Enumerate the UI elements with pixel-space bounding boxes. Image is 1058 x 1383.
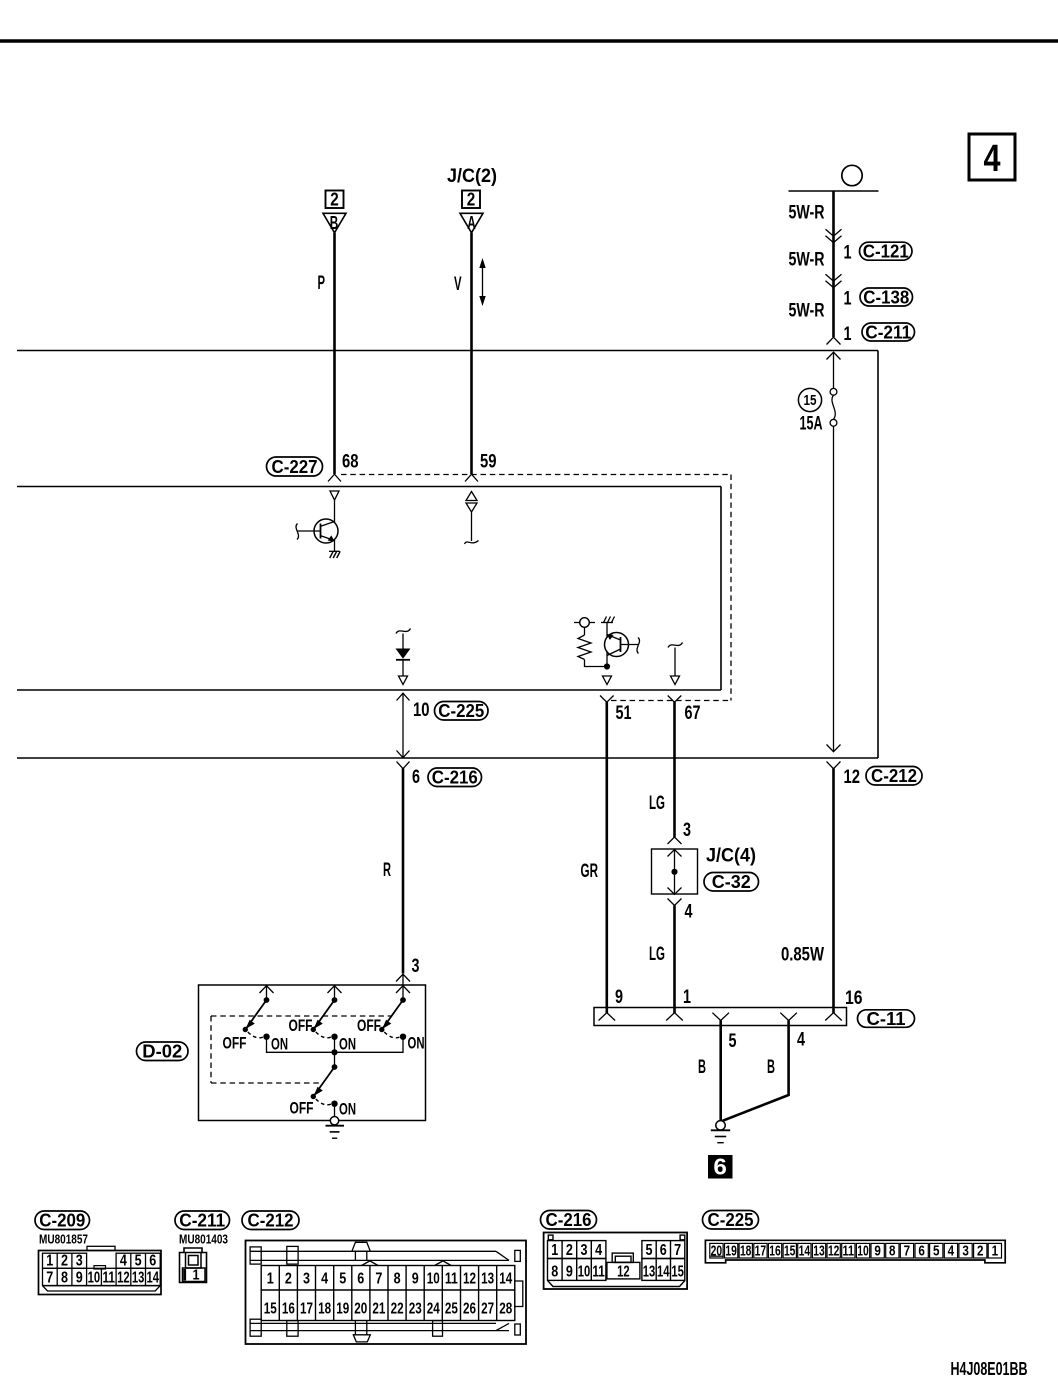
svg-text:6: 6 [713,1154,727,1180]
svg-text:4: 4 [595,1242,602,1259]
svg-text:4: 4 [685,901,693,923]
svg-text:OFF: OFF [357,1016,381,1035]
svg-text:2: 2 [467,190,476,210]
svg-text:5: 5 [135,1252,142,1269]
svg-text:12: 12 [117,1270,130,1287]
svg-text:15A: 15A [800,413,823,435]
svg-text:12: 12 [844,766,861,788]
svg-text:R: R [383,859,391,881]
svg-text:17: 17 [755,1243,767,1259]
svg-text:14: 14 [499,1271,512,1288]
svg-text:67: 67 [685,702,701,724]
svg-text:11: 11 [102,1270,115,1287]
svg-text:7: 7 [674,1242,681,1259]
svg-text:C-227: C-227 [272,457,318,477]
svg-text:11: 11 [592,1264,605,1281]
svg-text:68: 68 [342,451,359,473]
svg-text:ON: ON [339,1100,356,1119]
svg-text:3: 3 [683,819,691,841]
svg-text:11: 11 [843,1243,855,1259]
svg-text:1: 1 [267,1271,274,1288]
svg-text:LG: LG [649,792,665,814]
svg-text:25: 25 [445,1301,458,1318]
svg-text:P: P [318,272,326,294]
svg-text:26: 26 [463,1301,476,1318]
svg-text:16: 16 [769,1243,781,1259]
svg-text:5W-R: 5W-R [789,300,825,322]
svg-text:3: 3 [412,955,420,977]
svg-text:C-211: C-211 [179,1211,225,1231]
svg-text:7: 7 [46,1270,53,1287]
svg-text:1: 1 [844,242,852,264]
svg-text:C-32: C-32 [712,872,751,892]
svg-text:11: 11 [445,1271,458,1288]
svg-text:6: 6 [357,1271,364,1288]
svg-text:V: V [454,273,462,295]
svg-text:18: 18 [740,1243,752,1259]
svg-text:28: 28 [499,1301,512,1318]
svg-text:C-209: C-209 [39,1211,85,1231]
svg-text:10: 10 [857,1243,869,1259]
svg-text:2: 2 [285,1271,292,1288]
svg-text:12: 12 [463,1271,476,1288]
svg-text:15: 15 [784,1243,796,1259]
svg-text:16: 16 [282,1301,295,1318]
svg-text:12: 12 [617,1264,630,1281]
svg-text:15: 15 [671,1264,684,1281]
svg-text:LG: LG [649,943,665,965]
svg-text:B: B [767,1056,775,1078]
svg-text:1: 1 [46,1252,53,1269]
svg-text:C-212: C-212 [871,766,917,786]
svg-text:10: 10 [88,1270,101,1287]
svg-text:3: 3 [303,1271,310,1288]
svg-text:C-216: C-216 [546,1210,592,1230]
svg-text:13: 13 [132,1270,145,1287]
svg-text:C-11: C-11 [867,1009,906,1029]
svg-text:3: 3 [962,1243,969,1259]
svg-text:24: 24 [427,1301,440,1318]
svg-text:4: 4 [120,1252,127,1269]
svg-text:J/C(2): J/C(2) [447,165,497,187]
svg-text:12: 12 [828,1243,840,1259]
svg-text:27: 27 [481,1301,494,1318]
svg-text:5: 5 [933,1243,940,1259]
svg-text:4: 4 [321,1271,328,1288]
svg-text:8: 8 [394,1271,401,1288]
svg-text:ON: ON [408,1034,425,1053]
svg-text:21: 21 [372,1301,385,1318]
svg-text:C-216: C-216 [432,768,478,788]
svg-text:9: 9 [412,1271,419,1288]
svg-text:6: 6 [918,1243,925,1259]
svg-text:5: 5 [339,1271,346,1288]
svg-text:5W-R: 5W-R [789,202,825,224]
svg-text:15: 15 [804,393,817,409]
svg-text:23: 23 [409,1301,422,1318]
svg-text:9: 9 [566,1264,573,1281]
svg-text:9: 9 [615,986,623,1008]
svg-text:8: 8 [61,1270,68,1287]
svg-text:9: 9 [76,1270,83,1287]
svg-text:4: 4 [984,138,1001,180]
svg-text:2: 2 [977,1243,984,1259]
svg-text:15: 15 [264,1301,277,1318]
svg-text:13: 13 [813,1243,825,1259]
svg-text:OFF: OFF [223,1034,247,1053]
svg-text:C-211: C-211 [865,323,911,343]
svg-text:5W-R: 5W-R [789,249,825,271]
svg-text:1: 1 [683,986,691,1008]
svg-text:10: 10 [413,699,430,721]
svg-text:1: 1 [844,288,852,310]
svg-text:6: 6 [149,1252,156,1269]
svg-text:B: B [698,1056,706,1078]
svg-text:2: 2 [61,1252,68,1269]
svg-text:1: 1 [193,1268,200,1284]
svg-text:D-02: D-02 [142,1042,182,1062]
svg-text:MU801857: MU801857 [39,1232,88,1247]
svg-text:4: 4 [797,1029,805,1051]
svg-text:8: 8 [889,1243,896,1259]
svg-text:1: 1 [844,323,852,345]
svg-text:C-121: C-121 [863,242,909,262]
svg-text:H4J08E01BB: H4J08E01BB [951,1359,1028,1379]
svg-text:51: 51 [616,702,632,724]
svg-text:C-212: C-212 [248,1211,294,1231]
svg-text:14: 14 [147,1270,160,1287]
svg-text:18: 18 [318,1301,331,1318]
svg-text:J/C(4): J/C(4) [706,845,756,867]
svg-text:14: 14 [799,1243,811,1259]
svg-text:MU801403: MU801403 [179,1232,228,1247]
svg-text:1: 1 [992,1243,999,1259]
svg-text:20: 20 [711,1243,723,1259]
svg-text:19: 19 [336,1301,349,1318]
svg-text:5: 5 [646,1242,653,1259]
svg-text:C-225: C-225 [708,1210,754,1230]
svg-text:8: 8 [551,1264,558,1281]
svg-text:6: 6 [660,1242,667,1259]
svg-text:3: 3 [76,1252,83,1269]
svg-text:A: A [467,213,476,233]
svg-text:GR: GR [581,860,599,882]
svg-text:ON: ON [339,1035,356,1054]
svg-text:14: 14 [657,1264,670,1281]
svg-text:59: 59 [480,451,497,473]
svg-text:10: 10 [427,1271,440,1288]
svg-text:B: B [330,213,339,233]
svg-text:5: 5 [729,1030,737,1052]
svg-text:10: 10 [578,1264,591,1281]
svg-text:2: 2 [330,190,339,210]
svg-text:4: 4 [948,1243,955,1259]
svg-text:OFF: OFF [289,1016,313,1035]
svg-text:9: 9 [874,1243,881,1259]
svg-text:6: 6 [412,766,420,788]
svg-text:13: 13 [643,1264,656,1281]
svg-text:OFF: OFF [290,1099,314,1118]
svg-text:17: 17 [300,1301,313,1318]
svg-text:16: 16 [845,987,863,1009]
svg-text:13: 13 [481,1271,494,1288]
svg-text:1: 1 [551,1242,558,1259]
svg-text:C-225: C-225 [438,701,484,721]
svg-text:20: 20 [354,1301,367,1318]
svg-text:ON: ON [271,1035,288,1054]
svg-text:7: 7 [375,1271,382,1288]
svg-text:2: 2 [566,1242,573,1259]
svg-text:19: 19 [725,1243,737,1259]
svg-text:7: 7 [904,1243,911,1259]
svg-text:22: 22 [391,1301,404,1318]
svg-text:C-138: C-138 [863,288,909,308]
svg-text:0.85W: 0.85W [781,944,824,966]
svg-text:3: 3 [581,1242,588,1259]
